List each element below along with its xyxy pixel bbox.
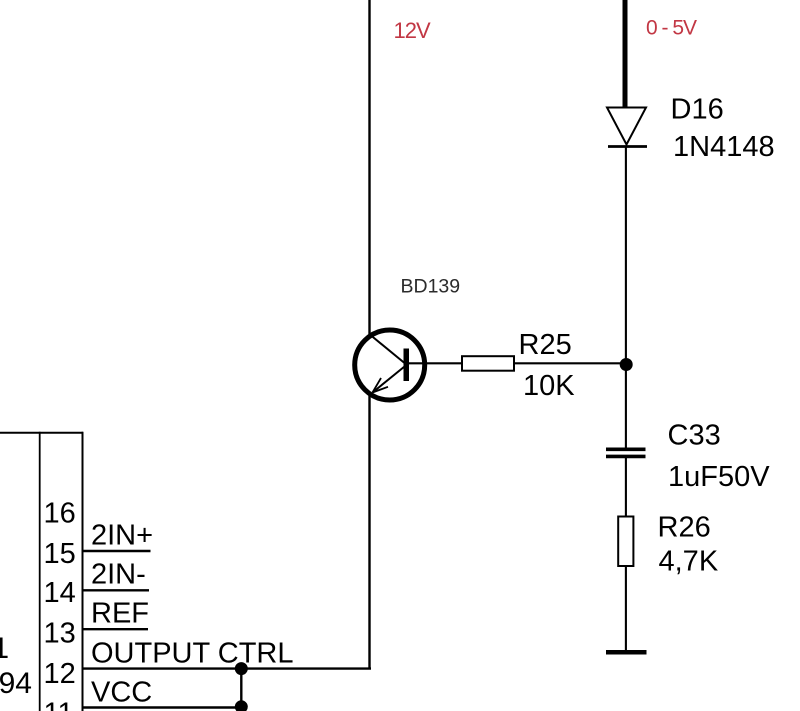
svg-text:VCC: VCC xyxy=(91,677,152,709)
svg-text:11: 11 xyxy=(44,698,74,711)
svg-text:13: 13 xyxy=(44,618,76,650)
wire junction to VCC xyxy=(240,668,242,707)
node junction dot xyxy=(620,358,633,371)
IC U1 body right edge xyxy=(82,432,84,711)
pin REF stub xyxy=(83,628,149,630)
svg-text:BD139: BD139 xyxy=(401,276,461,298)
wire 12V vertical rail xyxy=(368,0,370,669)
svg-text:12V: 12V xyxy=(394,18,431,43)
wire node to capacitor xyxy=(625,363,627,448)
svg-text:0 - 5V: 0 - 5V xyxy=(646,17,697,40)
junction dot on VCC xyxy=(235,700,248,711)
svg-text:10K: 10K xyxy=(523,370,575,402)
svg-text:2IN+: 2IN+ xyxy=(91,520,153,552)
pin VCC stub xyxy=(83,706,242,708)
svg-text:R26: R26 xyxy=(658,512,711,544)
junction dot on OUTPUT CTRL xyxy=(235,662,248,675)
pin 2IN+ stub xyxy=(83,550,151,552)
wire base to R25 xyxy=(409,362,462,364)
svg-text:14: 14 xyxy=(44,577,76,609)
IC U1 inner divider xyxy=(39,432,41,711)
svg-text:1N4148: 1N4148 xyxy=(673,131,775,163)
svg-text:1uF50V: 1uF50V xyxy=(668,461,770,493)
svg-text:R25: R25 xyxy=(519,329,572,361)
svg-text:D16: D16 xyxy=(671,94,724,126)
IC U1 body top edge xyxy=(0,432,83,434)
capacitor C33 xyxy=(606,449,646,456)
resistor R26 xyxy=(618,517,633,567)
svg-text:OUTPUT CTRL: OUTPUT CTRL xyxy=(91,638,293,670)
svg-text:94: 94 xyxy=(0,667,32,700)
svg-text:16: 16 xyxy=(44,498,76,530)
resistor R25 xyxy=(462,356,514,371)
wire R26 to ground xyxy=(625,566,627,651)
wire OUTPUT CTRL to 12V rail xyxy=(83,667,372,669)
wire capacitor to R26 xyxy=(625,458,627,517)
svg-text:REF: REF xyxy=(91,598,149,630)
wire 0-5V thick vertical xyxy=(623,0,628,107)
svg-text:C33: C33 xyxy=(668,420,721,452)
svg-text:12: 12 xyxy=(44,658,76,690)
wire R25 to node xyxy=(514,362,622,364)
svg-text:15: 15 xyxy=(44,538,76,570)
diode D16 xyxy=(607,108,647,147)
ground xyxy=(606,650,647,655)
svg-text:4,7K: 4,7K xyxy=(659,546,719,578)
svg-text:2IN-: 2IN- xyxy=(91,559,146,591)
svg-text:1: 1 xyxy=(0,632,9,665)
wire diode to node xyxy=(625,148,627,361)
transistor Q1 BD139 xyxy=(355,330,425,400)
pin 2IN- stub xyxy=(83,589,150,591)
